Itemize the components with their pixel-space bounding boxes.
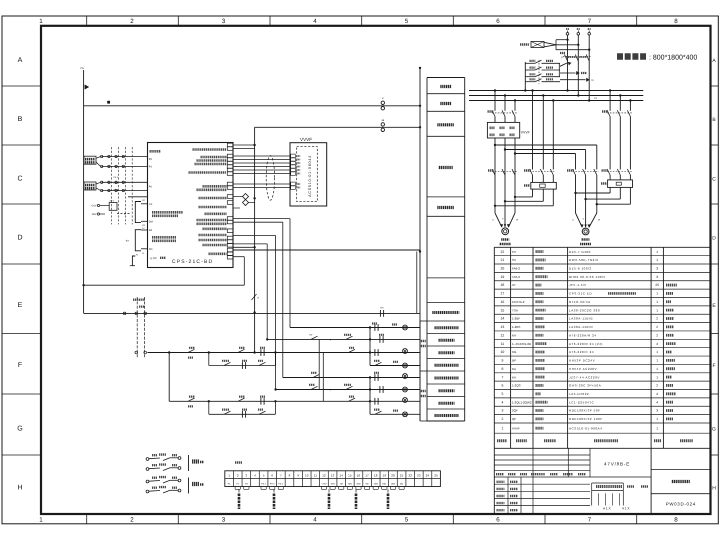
svg-text:14: 14 xyxy=(340,474,344,478)
svg-text:1-2QS: 1-2QS xyxy=(512,384,521,388)
svg-text:CPS-21C ED: CPS-21C ED xyxy=(569,292,592,296)
svg-text:24: 24 xyxy=(426,474,430,478)
motor M2 labels xyxy=(580,240,591,245)
U1 left pin label P1G xyxy=(150,150,161,153)
svg-text:CA: CA xyxy=(149,203,153,206)
U2 inner dashed module xyxy=(297,147,318,202)
svg-text:DW3-50D-TN2/2: DW3-50D-TN2/2 xyxy=(569,258,599,262)
thermal relay 1RJ xyxy=(524,175,556,189)
power +24V terminal xyxy=(91,204,110,207)
wire pin row 208 stub xyxy=(233,207,240,209)
svg-text:3: 3 xyxy=(222,517,226,524)
svg-text:LA38A-11B/B: LA38A-11B/B xyxy=(569,317,593,321)
stage mark box xyxy=(592,483,648,506)
svg-text:VVVF: VVVF xyxy=(521,131,530,135)
svg-text:3: 3 xyxy=(501,409,503,413)
svg-text:FA6-2: FA6-2 xyxy=(512,267,520,271)
contact KA on manual-auto rung xyxy=(380,307,384,317)
wire control line 1 horizontal xyxy=(84,105,420,107)
svg-text:A 1 X: A 1 X xyxy=(603,507,611,511)
svg-text:DM: DM xyxy=(149,220,153,223)
svg-text:D: D xyxy=(712,236,716,242)
wire control line 2 horizontal xyxy=(255,126,420,128)
svg-text:4: 4 xyxy=(656,342,658,346)
resistor R1 box xyxy=(109,200,117,211)
PE arrow symbol xyxy=(85,85,90,90)
svg-text:4: 4 xyxy=(313,18,317,25)
svg-text:+24V: +24V xyxy=(91,205,97,208)
sensor B2 wire row lower with plug contacts xyxy=(101,189,148,191)
function box dividers xyxy=(427,94,465,409)
U1 left pin labels xyxy=(149,158,153,251)
wire manual-auto rung y313.4 xyxy=(84,312,420,314)
svg-text:5: 5 xyxy=(405,517,409,524)
svg-text:1: 1 xyxy=(656,350,658,354)
svg-text:LA5-D4022: LA5-D4022 xyxy=(569,392,589,396)
power -36V terminal xyxy=(91,213,105,216)
svg-text:RDE100K/3P 100F: RDE100K/3P 100F xyxy=(569,417,603,421)
svg-text:BP: BP xyxy=(512,359,516,363)
svg-text:DZ5-6 100/2: DZ5-6 100/2 xyxy=(569,267,592,271)
svg-text:5: 5 xyxy=(501,392,503,396)
svg-text:A: A xyxy=(18,57,23,64)
svg-text:22: 22 xyxy=(409,474,413,478)
bottom band ticks xyxy=(87,514,637,524)
svg-text:6: 6 xyxy=(496,18,500,25)
bottom band column numbers 1-8 xyxy=(39,517,678,524)
sensor B2 third wire xyxy=(128,196,148,198)
svg-text:1: 1 xyxy=(656,308,658,312)
U2 terminal tiny labels xyxy=(296,156,300,188)
sensor B2 fork wires xyxy=(96,182,101,190)
svg-text:18: 18 xyxy=(374,474,378,478)
svg-text:8: 8 xyxy=(674,18,678,25)
svg-text:6: 6 xyxy=(496,517,500,524)
svg-text:KA: KA xyxy=(512,333,516,337)
VVVF power terminal box xyxy=(487,122,529,138)
svg-text:TA5-2: TA5-2 xyxy=(512,275,520,279)
svg-text:C: C xyxy=(17,176,22,183)
bus line L2 xyxy=(469,95,643,97)
svg-text:13: 13 xyxy=(501,325,505,329)
svg-text:6: 6 xyxy=(501,384,503,388)
ladder cross-link x319 xyxy=(318,339,320,389)
svg-text:23: 23 xyxy=(417,474,421,478)
pushbutton group 1 row 1 xyxy=(146,455,181,461)
title block right column dividers xyxy=(651,470,710,494)
svg-text:21: 21 xyxy=(400,474,404,478)
dimension note text xyxy=(617,55,697,62)
motor M1 xyxy=(502,228,509,235)
sensor B1 wire row lower with plug contacts xyxy=(101,165,148,167)
svg-text:16: 16 xyxy=(357,474,361,478)
svg-text:2: 2 xyxy=(130,517,134,524)
svg-text:3: 3 xyxy=(656,409,658,413)
U1 interior right-aligned signal text rows xyxy=(189,150,227,254)
svg-text:4: 4 xyxy=(501,400,503,404)
wire pin 1 long horizontal to rail xyxy=(233,249,420,251)
svg-text:15: 15 xyxy=(348,474,352,478)
svg-text:H: H xyxy=(17,485,22,492)
connector pin labels P5-1 P5-2 P5-3 xyxy=(114,176,119,192)
svg-text:AT6-220A/R 24: AT6-220A/R 24 xyxy=(569,333,597,337)
revision header tiny row xyxy=(494,474,651,477)
svg-text:2: 2 xyxy=(656,317,658,321)
svg-text:1: 1 xyxy=(656,292,658,296)
wire pin C1 to riser xyxy=(233,144,255,146)
svg-text:16: 16 xyxy=(501,300,505,304)
company name cell xyxy=(672,480,690,483)
svg-text:F: F xyxy=(18,362,22,369)
supply cable entry box xyxy=(520,42,544,48)
svg-text:VVVF: VVVF xyxy=(300,137,312,142)
driver bracket U2/U3 xyxy=(135,199,147,227)
ladder rung row3 branch y365.5 xyxy=(209,353,276,369)
U2 terminal cells xyxy=(291,154,296,189)
svg-text:D: D xyxy=(17,235,22,242)
svg-text:LA38-20C2G 380: LA38-20C2G 380 xyxy=(569,308,600,312)
svg-text:21: 21 xyxy=(501,258,505,262)
shielded cable ellipse xyxy=(266,156,274,201)
svg-text:LA38A-11B/R: LA38A-11B/R xyxy=(569,325,593,329)
arrester arrow symbol xyxy=(560,62,572,66)
group 2 brace and label xyxy=(189,478,205,494)
wires bus to contactor 2B xyxy=(610,91,630,111)
svg-text:AT6-220/R 24 (24): AT6-220/R 24 (24) xyxy=(569,342,603,346)
svg-text:1M: 1M xyxy=(340,482,343,485)
contactor 1B contacts xyxy=(488,110,518,116)
motor1 feed arrows xyxy=(492,212,519,227)
wires bus to contactor 1BM xyxy=(533,91,554,170)
BOM row lines xyxy=(494,256,710,434)
bracket column for lift groups xyxy=(420,321,427,421)
ladder rung row8 segment y414.3 xyxy=(370,410,420,417)
group 1 brace and label xyxy=(189,455,205,471)
wires bus to contactor 1B xyxy=(495,91,515,111)
U1 bottom-left pins text xyxy=(150,257,166,260)
svg-text:-36V: -36V xyxy=(91,213,97,216)
svg-text:12: 12 xyxy=(322,474,326,478)
wires VVVF output branch to motor2 side xyxy=(495,145,597,170)
pushbutton group 1 row 2 xyxy=(146,465,181,471)
svg-text:ACS510-01-060A4: ACS510-01-060A4 xyxy=(569,426,602,430)
ladder rung row5 y377.5 xyxy=(283,373,420,381)
BOM header row texts xyxy=(497,439,693,442)
svg-text:M4: M4 xyxy=(149,229,153,232)
wires 1RJ bend to motor1 xyxy=(494,189,554,207)
svg-text:KA: KA xyxy=(126,240,130,243)
junction square on line 1 xyxy=(107,101,110,104)
svg-text:1: 1 xyxy=(656,417,658,421)
group label 2# xyxy=(421,391,426,396)
ladder group vertical x370 upper xyxy=(369,328,371,366)
incoming supply terminal circles xyxy=(566,29,591,35)
svg-text:11: 11 xyxy=(501,342,505,346)
bus junction dots xyxy=(494,89,632,101)
svg-text:7: 7 xyxy=(588,517,592,524)
svg-text:◎ NC: ◎ NC xyxy=(150,257,157,260)
incoming phase risers xyxy=(568,35,590,100)
signature rows xyxy=(494,477,590,514)
svg-text:25: 25 xyxy=(434,474,438,478)
terminal strip cell dividers xyxy=(233,471,431,487)
ladder rung row7 y401.3 main rung 2 xyxy=(169,397,420,407)
svg-text:KA: KA xyxy=(380,307,384,310)
svg-text:LC1-D2504TC: LC1-D2504TC xyxy=(569,400,595,404)
motor M2 xyxy=(582,228,589,235)
svg-text:1: 1 xyxy=(501,426,503,430)
svg-text:P5-1: P5-1 xyxy=(261,482,266,485)
svg-text:E: E xyxy=(18,302,23,309)
svg-text:DD: DD xyxy=(149,248,153,251)
svg-text:PW03D-024: PW03D-024 xyxy=(666,502,696,507)
contactor 1M contacts xyxy=(488,169,517,175)
svg-text:13: 13 xyxy=(331,474,335,478)
contactor 2M contacts xyxy=(602,169,634,175)
function box column outline xyxy=(427,78,465,422)
pushbutton group 2 row 1 xyxy=(146,477,181,483)
sensor B2 wire row upper with plug contacts xyxy=(101,181,148,183)
ladder rung row1 y327.5 xyxy=(290,324,420,331)
left band row dividers xyxy=(2,86,41,455)
svg-text:VVVF: VVVF xyxy=(512,426,520,430)
svg-text:P5-4: P5-4 xyxy=(270,482,275,485)
terminal circle on rung xyxy=(123,312,126,315)
terminal strip designations xyxy=(228,482,404,485)
wires U1 lower pins bend bundle xyxy=(233,219,290,390)
indicator row label texts xyxy=(435,328,459,416)
plug connector J1 columns xyxy=(133,297,145,358)
wires 2B to 2M contacts xyxy=(610,117,630,170)
wire dashed to driver with X mark xyxy=(117,212,131,216)
svg-text:20: 20 xyxy=(391,474,395,478)
svg-text:1: 1 xyxy=(656,367,658,371)
wires 1B to VVVF input box xyxy=(495,117,515,123)
wire PE drop to connector xyxy=(83,285,85,313)
wire riser vertical x254.6 xyxy=(253,127,255,353)
svg-text:KG: KG xyxy=(512,350,517,354)
svg-text:1-2BS: 1-2BS xyxy=(512,325,520,329)
svg-text:7: 7 xyxy=(501,375,503,379)
pushbutton group 2 row 2 xyxy=(146,487,181,493)
title block revision lines xyxy=(494,448,590,477)
svg-text:RT18-32/4A: RT18-32/4A xyxy=(569,300,591,304)
svg-text:1: 1 xyxy=(39,18,43,25)
wires 2BM down to motor2 xyxy=(574,175,598,213)
U1 interior left text group 2 xyxy=(152,237,176,241)
svg-text:C: C xyxy=(712,177,716,183)
svg-text:2: 2 xyxy=(656,325,658,329)
svg-text:10: 10 xyxy=(501,350,505,354)
sensor B2 tacho box xyxy=(84,182,96,190)
svg-text:8: 8 xyxy=(501,367,503,371)
svg-text:1U: 1U xyxy=(594,97,597,100)
right band row dividers xyxy=(711,86,719,455)
svg-text:18: 18 xyxy=(501,283,505,287)
svg-text:8: 8 xyxy=(674,517,678,524)
svg-text:3: 3 xyxy=(656,267,658,271)
top band ticks xyxy=(87,16,637,26)
motor M1 labels xyxy=(500,240,511,245)
wires U1 to VVVF analog terminals xyxy=(233,156,291,174)
svg-text:ACS510-01-06044: ACS510-01-06044 xyxy=(308,155,312,197)
ladder cross-link x323 xyxy=(322,353,324,402)
terminal strip bottom tabs xyxy=(235,487,404,490)
svg-text:JZS7-44 AC220V: JZS7-44 AC220V xyxy=(569,375,600,379)
svg-text:5: 5 xyxy=(405,18,409,25)
svg-text:14: 14 xyxy=(501,317,505,321)
svg-text:CPS-21C-BD: CPS-21C-BD xyxy=(172,259,213,265)
wire right vertical rail xyxy=(417,67,421,421)
bus line L3 xyxy=(469,100,643,102)
svg-text:KA: KA xyxy=(512,375,516,379)
wire loop below U1 xyxy=(233,257,244,286)
svg-text:15: 15 xyxy=(501,308,505,312)
approval stamp row xyxy=(603,507,630,511)
svg-text:P5-3: P5-3 xyxy=(114,189,119,192)
terminal strip XT label xyxy=(235,461,242,464)
U1 interior left text group 1 xyxy=(152,212,183,216)
svg-text:+24V: +24V xyxy=(321,482,327,485)
svg-text:3: 3 xyxy=(222,18,226,25)
left band row letters A-H xyxy=(17,57,22,492)
sensor B1 tacho box xyxy=(84,156,96,164)
op-amp U1 main controller block CPS-21C-BD xyxy=(148,143,234,268)
stepped feeder wires xyxy=(556,39,590,51)
svg-text:2R-1: 2R-1 xyxy=(110,200,116,203)
svg-text:H: H xyxy=(712,486,716,492)
svg-text:RDE100K/3P 50F: RDE100K/3P 50F xyxy=(569,409,601,413)
cable screen dashed verticals xyxy=(111,147,132,224)
group label 1# xyxy=(421,341,426,346)
wire pin C2 to riser xyxy=(233,148,255,150)
svg-text:9: 9 xyxy=(501,359,503,363)
svg-text:F: F xyxy=(562,56,564,60)
wires VVVF outputs down xyxy=(494,138,516,213)
svg-text:1: 1 xyxy=(656,300,658,304)
svg-text:1: 1 xyxy=(39,517,43,524)
monitor relay F rows xyxy=(524,60,560,92)
ladder rung row7 branch y414.3 xyxy=(209,401,276,417)
svg-text:: 800*1800*400: : 800*1800*400 xyxy=(649,55,697,62)
inverter U2 VVVF block outline xyxy=(290,143,327,206)
ladder group vertical x370 lower xyxy=(369,378,371,415)
svg-text:17: 17 xyxy=(365,474,369,478)
svg-text:1-2QL1-2QW2: 1-2QL1-2QW2 xyxy=(512,400,532,404)
svg-text:-36V: -36V xyxy=(330,482,335,485)
right band row letters A-H xyxy=(712,58,716,492)
svg-text:1: 1 xyxy=(656,375,658,379)
connector J1 circles on rung y313.4 xyxy=(135,312,147,315)
svg-text:2: 2 xyxy=(501,417,503,421)
svg-text:SV: SV xyxy=(512,258,516,262)
contactor 2B contacts xyxy=(602,110,633,116)
diamond plug symbols xyxy=(233,194,255,206)
svg-text:1: 1 xyxy=(656,359,658,363)
svg-text:25: 25 xyxy=(655,283,659,287)
wire PE branch horizontal y285 xyxy=(82,284,244,286)
svg-text:7: 7 xyxy=(588,18,592,25)
terminal strip wire notes rotated xyxy=(239,489,388,509)
svg-text:1: 1 xyxy=(656,250,658,254)
cable funnel xyxy=(544,42,556,47)
terminal strip XT body xyxy=(225,471,441,487)
svg-text:PE: PE xyxy=(81,67,85,70)
terminal strip numbers xyxy=(228,474,438,478)
svg-text:12: 12 xyxy=(501,333,505,337)
svg-text:HH54P AC220V: HH54P AC220V xyxy=(569,367,597,371)
connector J1 circles on rung y352.5 xyxy=(135,351,147,354)
svg-text:P5-1: P5-1 xyxy=(114,176,119,179)
wires 2RJ bend to motor2 xyxy=(576,187,631,204)
svg-text:P5-2: P5-2 xyxy=(114,182,119,185)
svg-text:1..43-KR/1-6D: 1..43-KR/1-6D xyxy=(512,342,532,346)
svg-text:TSA: TSA xyxy=(512,308,518,312)
ladder rung row3 y352.5 main rung 1 xyxy=(148,348,421,358)
connector X2 on line 2 xyxy=(381,119,385,132)
svg-text:P5-1: P5-1 xyxy=(279,482,284,485)
sensor B1 fork wires xyxy=(96,157,101,167)
top band column numbers 1-8 xyxy=(39,18,678,25)
sheet count cell ticks xyxy=(599,493,620,505)
svg-text:22: 22 xyxy=(501,250,505,254)
BOM table row contents xyxy=(501,250,677,431)
svg-text:47V/8B-E: 47V/8B-E xyxy=(604,462,630,467)
svg-text:B: B xyxy=(18,116,23,123)
thermal relay 2RJ xyxy=(601,175,633,187)
svg-text:BH02 20-0.66 100/5: BH02 20-0.66 100/5 xyxy=(569,275,606,279)
svg-text:QF: QF xyxy=(512,417,516,421)
svg-text:AT6-220/C 24: AT6-220/C 24 xyxy=(569,350,594,354)
svg-text:20: 20 xyxy=(501,267,505,271)
svg-text:2: 2 xyxy=(656,384,658,388)
contactor 2BM contacts xyxy=(567,169,599,175)
isolator QS contacts on risers xyxy=(560,53,592,61)
U1 right edge pin boxes xyxy=(227,143,233,259)
ladder rung row6 y389.5 xyxy=(274,385,420,393)
svg-text:3: 3 xyxy=(656,275,658,279)
svg-text:1: 1 xyxy=(656,426,658,430)
svg-text:KA: KA xyxy=(512,367,516,371)
svg-text:11: 11 xyxy=(314,474,317,478)
svg-text:4: 4 xyxy=(656,400,658,404)
motor2 feed arrows xyxy=(572,212,601,228)
svg-text:JF5-1.5/5: JF5-1.5/5 xyxy=(569,283,587,287)
svg-text:4: 4 xyxy=(313,517,317,524)
svg-text:1-2BF: 1-2BF xyxy=(512,317,520,321)
svg-text:1: 1 xyxy=(656,258,658,262)
svg-text:HH53P DC24V: HH53P DC24V xyxy=(569,359,595,363)
contactor 1BM contacts xyxy=(524,169,556,175)
svg-text:19: 19 xyxy=(383,474,387,478)
relay F label and note xyxy=(562,56,589,60)
plug symbols to risers xyxy=(560,71,594,82)
svg-text:PV: PV xyxy=(512,250,516,254)
svg-text:19: 19 xyxy=(501,275,505,279)
svg-text:2QF: 2QF xyxy=(512,409,518,413)
ladder rung row2 y339.4 xyxy=(266,334,420,343)
relay KA bracket L2/L1 xyxy=(126,227,148,255)
svg-text:17: 17 xyxy=(501,292,505,296)
svg-text:GHS-20C 3P+50A: GHS-20C 3P+50A xyxy=(569,384,601,388)
ladder rung row4 segment y365.5 xyxy=(370,361,420,368)
svg-text:10: 10 xyxy=(305,474,309,478)
title block outline xyxy=(494,448,651,514)
svg-text:4: 4 xyxy=(656,392,658,396)
connector X1 on line 1 xyxy=(381,97,384,110)
svg-text:1RJ/TA-2: 1RJ/TA-2 xyxy=(512,300,525,304)
function box label texts xyxy=(432,87,459,313)
